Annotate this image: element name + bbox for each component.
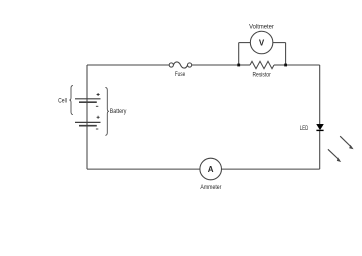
- wire (left junction to resistor): [239, 64, 250, 66]
- svg-text:Cell: Cell: [58, 98, 67, 104]
- LED (diode triangle and cathode bar): [316, 124, 323, 130]
- wire (right junction to top-right corner): [286, 64, 320, 66]
- wire voltmeter branch right vertical: [285, 43, 287, 65]
- LED light arrow upper: [340, 136, 353, 149]
- label Battery: [110, 109, 127, 115]
- cell 1 minus sign: [96, 105, 98, 107]
- label LED: [300, 126, 309, 132]
- svg-text:Voltmeter: Voltmeter: [249, 24, 274, 30]
- ammeter: [200, 158, 222, 180]
- label Voltmeter: [249, 24, 274, 30]
- wire voltmeter branch left vertical: [238, 43, 240, 65]
- svg-text:Resistor: Resistor: [252, 73, 270, 79]
- battery brace: [105, 87, 109, 135]
- cell 2 plus sign: [97, 116, 100, 119]
- cell brace: [69, 85, 73, 114]
- wire voltmeter branch right horizontal: [273, 42, 286, 44]
- battery cell 1 positive plate: [75, 98, 101, 100]
- label Fuse: [175, 72, 186, 78]
- label Ammeter: [200, 185, 221, 191]
- svg-text:V: V: [259, 38, 265, 47]
- cell 1 plus sign: [97, 93, 100, 96]
- fuse: [169, 62, 192, 68]
- battery cell 1 negative plate: [79, 101, 97, 103]
- wire bottom (right corner to ammeter): [222, 168, 320, 170]
- battery cell 2 positive plate: [75, 121, 101, 123]
- wire right side (top corner down to LED anode): [319, 65, 321, 124]
- wire (fuse to left junction): [192, 64, 239, 66]
- svg-text:A: A: [208, 165, 214, 174]
- resistor: [250, 61, 274, 68]
- wire bottom (ammeter to bottom-left corner): [87, 168, 200, 170]
- label Cell: [58, 98, 67, 104]
- ammeter A symbol: [208, 165, 214, 174]
- battery cell 2 negative plate: [79, 125, 97, 127]
- junction right (voltmeter branch / main line): [284, 64, 287, 67]
- wire (resistor to right junction): [274, 64, 286, 66]
- cell 2 minus sign: [96, 128, 98, 130]
- wire top (left segment from battery top corner to fuse): [87, 64, 169, 66]
- voltmeter: [250, 31, 273, 54]
- svg-text:Fuse: Fuse: [175, 72, 186, 78]
- svg-text:Battery: Battery: [110, 109, 127, 115]
- junction left (voltmeter branch / main line): [237, 64, 240, 67]
- voltmeter V symbol: [259, 38, 265, 47]
- wire voltmeter branch left horizontal: [239, 42, 251, 44]
- svg-text:LED: LED: [300, 126, 309, 132]
- svg-text:Ammeter: Ammeter: [200, 185, 221, 191]
- wire left side (bottom corner up through battery to top corner): [86, 65, 88, 169]
- label Resistor: [252, 73, 270, 79]
- wire right side (LED cathode down to bottom corner): [319, 131, 321, 170]
- LED light arrow lower: [328, 149, 341, 162]
